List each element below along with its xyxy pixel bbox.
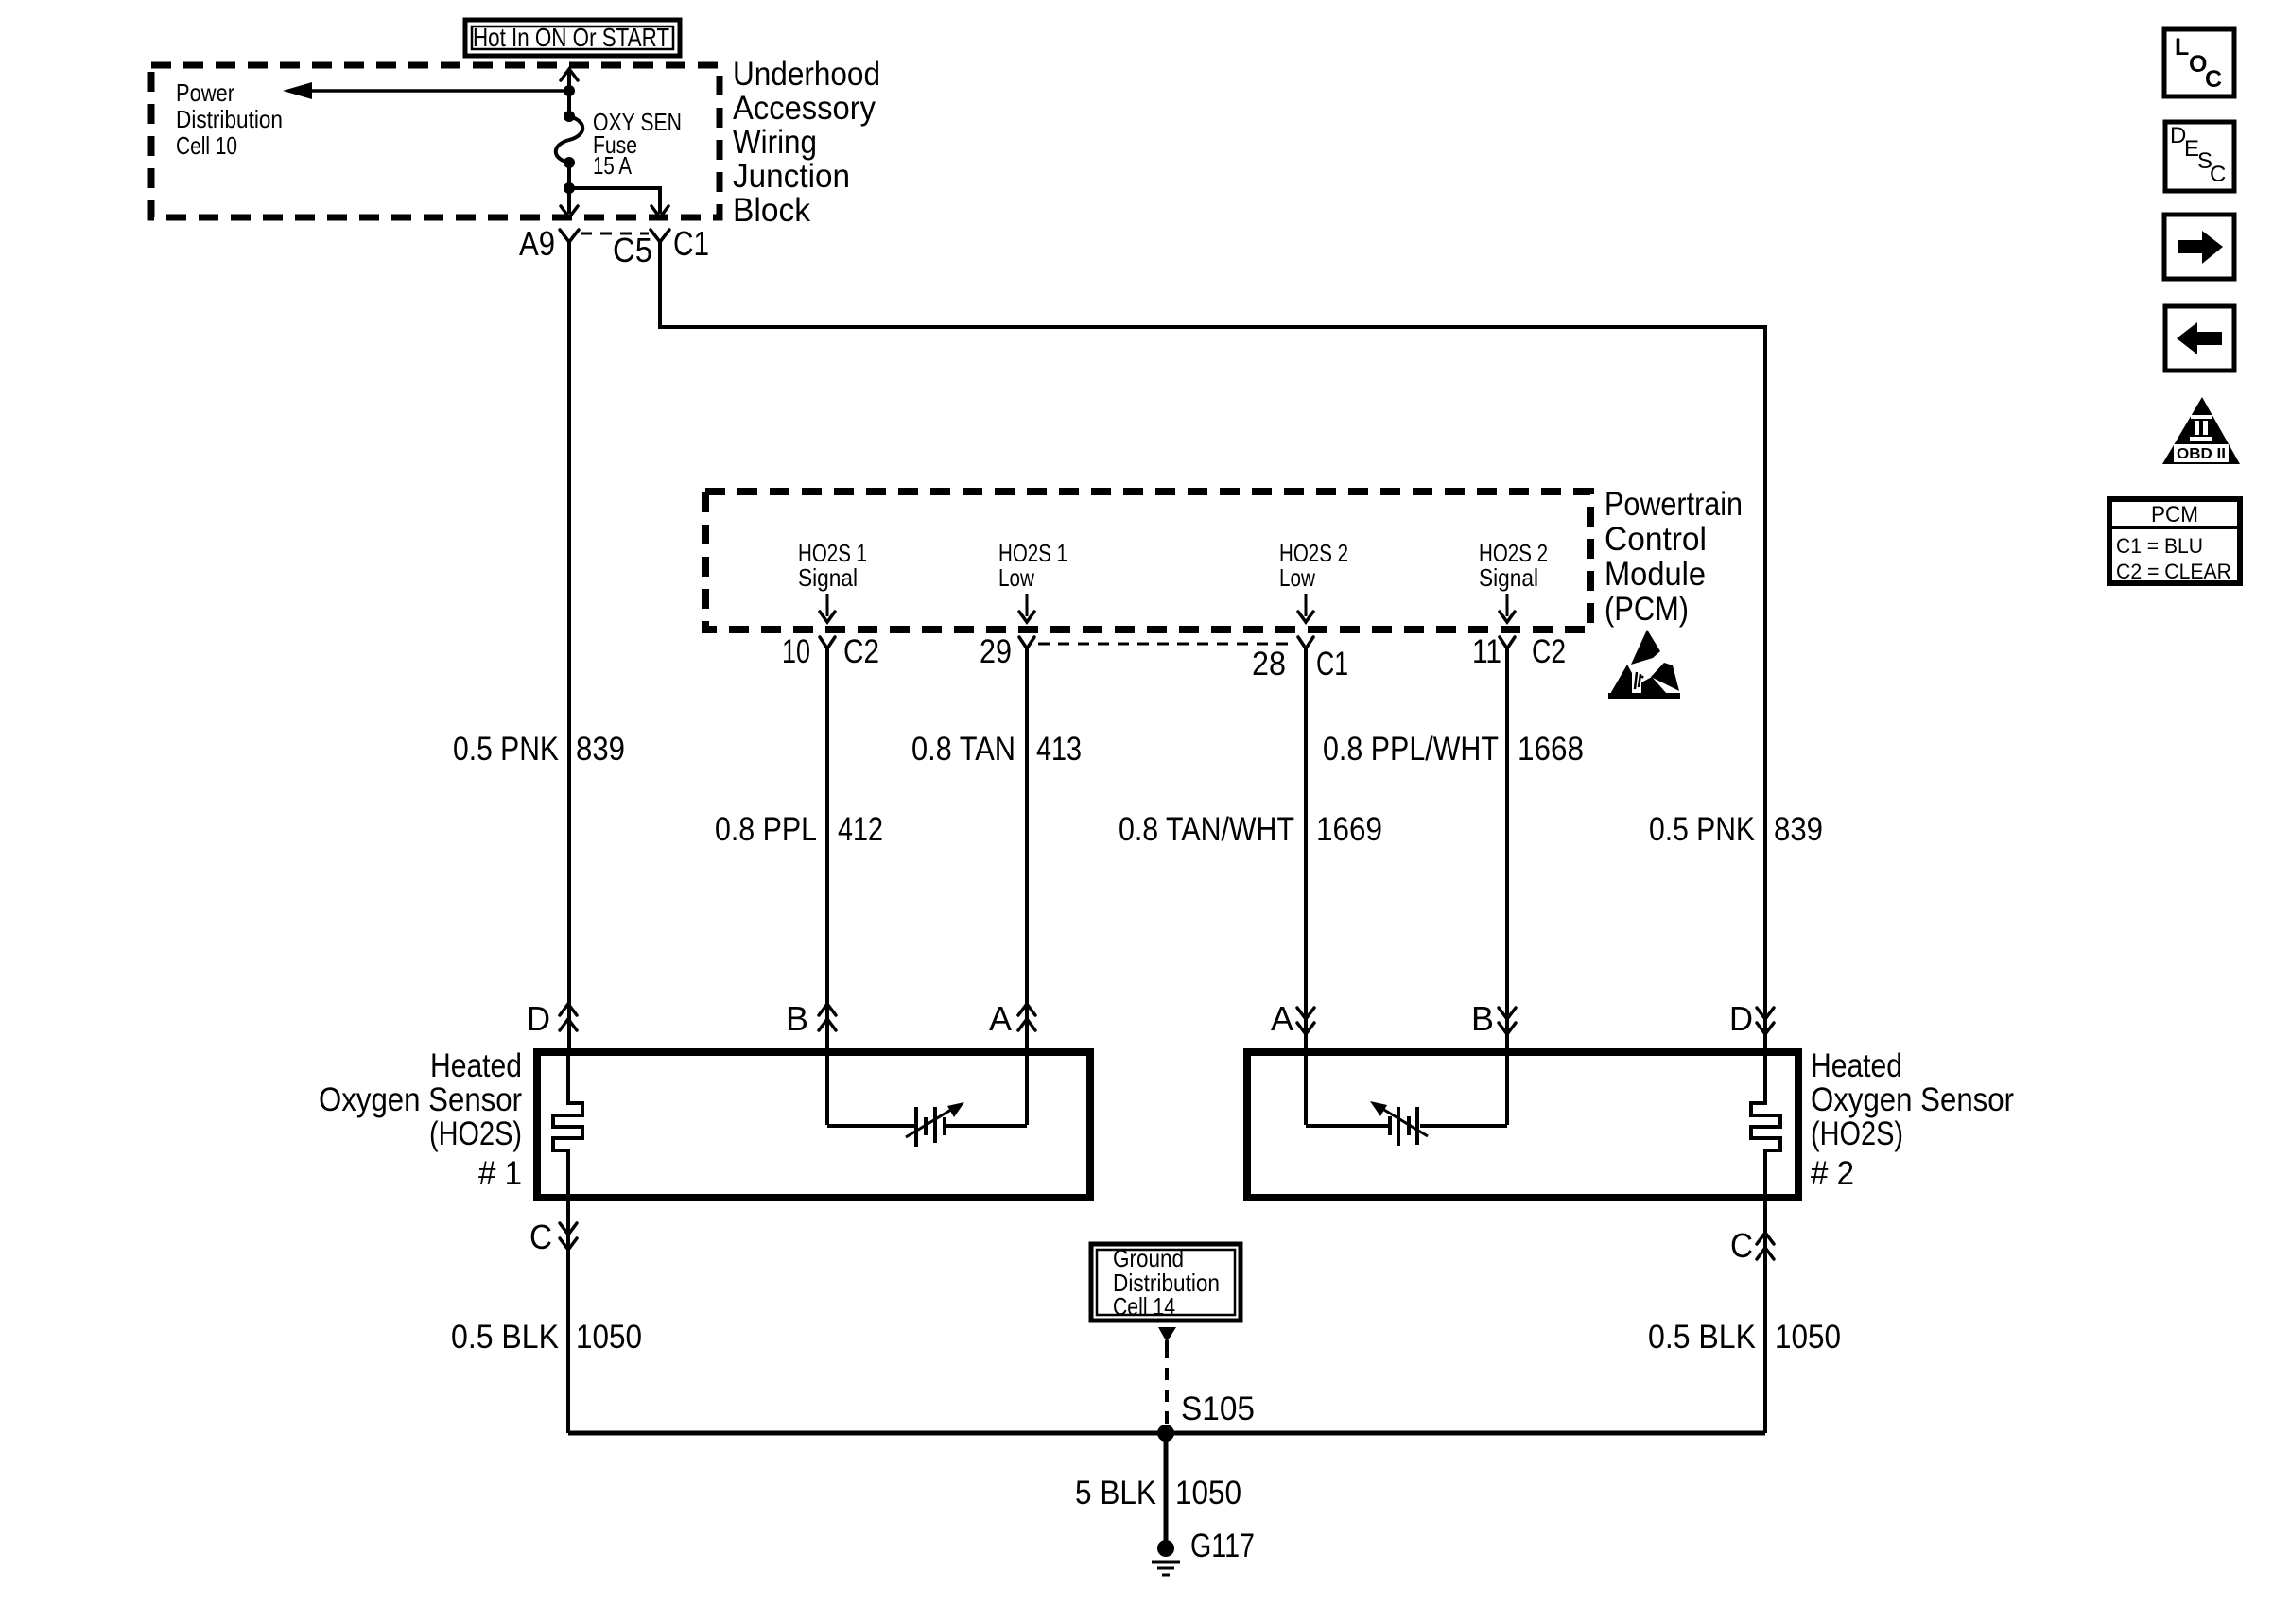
svg-text:B: B xyxy=(1471,999,1494,1038)
fuse "OXY SEN Fuse 15 A" xyxy=(556,108,682,180)
svg-text:OBD II: OBD II xyxy=(2177,446,2226,462)
svg-text:C1: C1 xyxy=(673,224,709,263)
svg-text:0.5 BLK: 0.5 BLK xyxy=(451,1319,559,1356)
svg-text:0.5 BLK: 0.5 BLK xyxy=(1648,1319,1756,1356)
svg-text:Low: Low xyxy=(1279,563,1315,592)
connector cavity C1 xyxy=(651,224,709,263)
wire: 0.5 PNK 839 right (C1 across to HO2S #2 pin D) xyxy=(660,242,1765,1052)
svg-text:Module: Module xyxy=(1605,556,1706,593)
svg-text:5 BLK: 5 BLK xyxy=(1075,1475,1156,1512)
icon: OBD II triangle xyxy=(2162,397,2240,464)
module box: Powertrain Control Module (PCM), dashed xyxy=(705,486,1743,630)
svg-text:1668: 1668 xyxy=(1518,731,1584,768)
HO2S #2 pin A connector xyxy=(1271,999,1314,1038)
svg-text:Wiring: Wiring xyxy=(733,124,817,161)
svg-text:Powertrain: Powertrain xyxy=(1605,486,1743,523)
svg-text:D: D xyxy=(1729,999,1753,1038)
wire: pin lead x=1086 (TAN) xyxy=(1025,648,1029,1125)
HO2S #2 pin C connector xyxy=(1730,1226,1774,1265)
svg-text:L: L xyxy=(2175,34,2189,60)
svg-text:Block: Block xyxy=(733,192,810,229)
svg-text:Heated: Heated xyxy=(1811,1047,1902,1084)
HO2S #1 pin A connector xyxy=(989,999,1035,1038)
icon: back arrow box xyxy=(2165,306,2234,371)
wire: 0.5 PNK 839 left (A9 down to HO2S #1 pin D) xyxy=(567,242,571,1052)
sensor box: Heated Oxygen Sensor (HO2S) # 1 xyxy=(319,1047,1090,1198)
wire: ignition feed from Hot In down to fuse xyxy=(561,69,578,116)
svg-text:PCM: PCM xyxy=(2151,502,2198,527)
icon: DESC box xyxy=(2165,122,2234,191)
svg-text:839: 839 xyxy=(1774,811,1823,848)
svg-text:C2: C2 xyxy=(843,633,879,670)
svg-text:1050: 1050 xyxy=(1775,1319,1841,1356)
svg-text:C: C xyxy=(2205,66,2222,93)
svg-text:Distribution: Distribution xyxy=(176,105,283,133)
ESD sensitivity symbol xyxy=(1608,630,1680,699)
junction block: Underhood Accessory Wiring Junction Block (dashed box) xyxy=(151,56,880,229)
HO2S #1 pin C connector xyxy=(529,1218,577,1256)
svg-text:D: D xyxy=(527,999,550,1038)
HO2S #2 pin B connector xyxy=(1471,999,1516,1038)
svg-text:Power: Power xyxy=(176,78,234,107)
svg-text:B: B xyxy=(786,999,808,1038)
PCM internal signal "HO2S 1 Low" xyxy=(998,539,1067,622)
sensing element (variable) HO2S #2 xyxy=(1306,1101,1507,1146)
svg-text:# 1: # 1 xyxy=(478,1155,522,1192)
svg-text:C: C xyxy=(1730,1226,1753,1265)
wire: pin lead x=1594 (PPL/WHT) xyxy=(1505,648,1509,1125)
svg-text:G117: G117 xyxy=(1190,1528,1255,1564)
svg-text:C2 = CLEAR: C2 = CLEAR xyxy=(2116,560,2231,583)
svg-text:413: 413 xyxy=(1036,731,1082,768)
heater element (HO2S #2) xyxy=(1751,1052,1780,1198)
svg-text:Signal: Signal xyxy=(1479,563,1538,592)
svg-text:0.8 PPL/WHT: 0.8 PPL/WHT xyxy=(1323,731,1499,768)
svg-text:Junction: Junction xyxy=(733,158,850,195)
svg-text:S105: S105 xyxy=(1181,1391,1255,1427)
wire: feed to Power Distribution (left arrow) xyxy=(283,82,569,99)
label box "Hot In ON Or START" xyxy=(465,20,680,56)
svg-text:A: A xyxy=(989,999,1012,1038)
svg-text:Accessory: Accessory xyxy=(733,90,876,127)
svg-text:C5: C5 xyxy=(613,231,652,269)
svg-text:C: C xyxy=(529,1218,552,1256)
ground G117 xyxy=(1152,1528,1255,1575)
svg-text:A: A xyxy=(1271,999,1293,1038)
svg-text:Low: Low xyxy=(998,563,1034,592)
PCM internal signal "HO2S 2 Low" xyxy=(1279,539,1348,622)
svg-text:Underhood: Underhood xyxy=(733,56,880,93)
splice S105 xyxy=(1157,1391,1255,1442)
icon: forward arrow box xyxy=(2164,215,2234,279)
svg-text:(PCM): (PCM) xyxy=(1605,591,1689,628)
svg-text:Control: Control xyxy=(1605,521,1707,558)
svg-text:(HO2S): (HO2S) xyxy=(429,1115,522,1152)
node: Power Distribution Cell 10 xyxy=(176,78,283,160)
svg-text:1050: 1050 xyxy=(1175,1475,1241,1512)
svg-text:1669: 1669 xyxy=(1316,811,1382,848)
svg-text:Oxygen Sensor: Oxygen Sensor xyxy=(1811,1081,2014,1118)
HO2S #1 pin D connector xyxy=(527,999,577,1038)
PCM internal signal "HO2S 1 Signal" xyxy=(798,539,867,622)
wire: pin lead x=875 (PPL) xyxy=(825,648,829,1125)
wire: 5 BLK 1050 to G117 xyxy=(1075,1433,1241,1548)
svg-text:412: 412 xyxy=(838,811,883,848)
svg-text:839: 839 xyxy=(576,731,625,768)
svg-text:Signal: Signal xyxy=(798,563,858,592)
svg-text:0.8 PPL: 0.8 PPL xyxy=(715,811,817,848)
svg-text:10: 10 xyxy=(782,633,810,670)
svg-text:C1 = BLU: C1 = BLU xyxy=(2116,534,2203,558)
svg-text:Hot In ON Or START: Hot In ON Or START xyxy=(473,23,669,52)
svg-text:1050: 1050 xyxy=(576,1319,642,1356)
connector link dash between C2 and C1 xyxy=(1038,643,1294,646)
sensor box: Heated Oxygen Sensor (HO2S) # 2 xyxy=(1247,1047,2014,1198)
wire: dashed drop from Ground Distribution to S105 xyxy=(1158,1327,1176,1428)
PCM pin 29 xyxy=(980,633,1034,670)
heater element (HO2S #1) xyxy=(553,1052,582,1198)
PCM pin 11 connector C2 xyxy=(1472,633,1566,670)
connector cavity A9 xyxy=(519,224,579,263)
svg-text:Oxygen Sensor: Oxygen Sensor xyxy=(319,1081,522,1118)
HO2S #1 pin B connector xyxy=(786,999,836,1038)
wire: ground bus xyxy=(568,1431,1765,1436)
svg-text:15 A: 15 A xyxy=(593,151,633,180)
connector C5 (dashed link) xyxy=(581,231,652,269)
svg-text:Heated: Heated xyxy=(430,1047,522,1084)
wire: pin lead x=1381 (TAN/WHT) xyxy=(1304,648,1308,1125)
svg-text:28: 28 xyxy=(1252,646,1286,682)
svg-text:# 2: # 2 xyxy=(1811,1155,1854,1192)
ground distribution box: Ground Distribution Cell 14 xyxy=(1091,1244,1241,1321)
PCM pin 10 connector C2 xyxy=(782,633,879,670)
wire: 0.5 BLK 1050 right xyxy=(1763,1198,1767,1433)
svg-text:29: 29 xyxy=(980,633,1012,670)
PCM internal signal "HO2S 2 Signal" xyxy=(1479,539,1548,622)
svg-text:11: 11 xyxy=(1472,633,1501,670)
wire: fuse output to cavities A9 and C1 xyxy=(561,163,668,217)
sensing element (variable) HO2S #1 xyxy=(827,1102,1027,1147)
svg-text:0.8 TAN/WHT: 0.8 TAN/WHT xyxy=(1119,811,1294,848)
svg-text:(HO2S): (HO2S) xyxy=(1811,1115,1903,1152)
svg-text:Cell 14: Cell 14 xyxy=(1113,1292,1175,1321)
svg-text:0.5 PNK: 0.5 PNK xyxy=(453,731,559,768)
svg-text:Cell 10: Cell 10 xyxy=(176,131,237,160)
icon: LOC box xyxy=(2164,29,2234,96)
HO2S #2 pin D connector xyxy=(1729,999,1774,1038)
svg-text:0.5 PNK: 0.5 PNK xyxy=(1649,811,1755,848)
svg-text:C: C xyxy=(2210,162,2226,187)
legend: PCM connector colors xyxy=(2109,499,2240,583)
svg-text:0.8 TAN: 0.8 TAN xyxy=(911,731,1015,768)
svg-text:C1: C1 xyxy=(1316,646,1348,682)
svg-text:C2: C2 xyxy=(1532,633,1566,670)
PCM pin 28 connector C1 xyxy=(1252,637,1348,682)
wire: 0.5 BLK 1050 left xyxy=(566,1198,570,1433)
svg-text:A9: A9 xyxy=(519,224,555,263)
